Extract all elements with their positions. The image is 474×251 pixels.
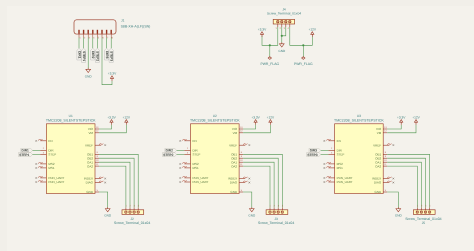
global label DIR3: [309, 148, 321, 152]
U2 motor pin stub row 3: [239, 159, 243, 162]
svg-text:DIR3: DIR3: [105, 51, 109, 58]
svg-text:OA2: OA2: [87, 164, 93, 168]
power flag PWR_FLAG 1: [260, 57, 279, 66]
svg-text:STEP: STEP: [337, 153, 345, 157]
svg-text:GND: GND: [230, 190, 238, 194]
U1 pin DIR stub: [40, 147, 46, 150]
U2 pin VM stub: [239, 130, 243, 133]
J1 pin 2 stub: [83, 34, 85, 38]
U3 motor pin stub row 1: [383, 151, 387, 154]
svg-text:PWR_FLAG: PWR_FLAG: [260, 62, 279, 66]
U3 pin VM stub: [383, 130, 387, 133]
screw terminal J3: [258, 205, 294, 225]
wire to PWR_FLAG 1: [269, 45, 271, 56]
U1 pin GND stub: [95, 189, 99, 192]
power symbol GND (under J4): [278, 42, 286, 53]
svg-text:OA2: OA2: [231, 164, 237, 168]
U2 pin VIO stub: [239, 126, 243, 129]
svg-text:STEP: STEP: [193, 153, 201, 157]
svg-text:J5: J5: [422, 221, 426, 225]
wire U2 motor out 2 to terminal: [243, 158, 278, 207]
U1 pin INDEX (NC): [95, 177, 106, 180]
wire U1 motor out 2 to terminal: [99, 158, 134, 207]
svg-text:VREF: VREF: [229, 143, 237, 147]
svg-text:STEP1: STEP1: [19, 153, 29, 157]
svg-text:VM: VM: [377, 131, 382, 135]
U3 pin STEP stub: [328, 151, 334, 154]
U2 pin PDN_UART (NC): [179, 176, 190, 179]
wire U2.VM to +12V: [243, 125, 270, 133]
global label STEP1: [82, 48, 86, 62]
J1 pin 6 stub: [101, 34, 103, 38]
wire U1 motor out 3 to terminal: [99, 162, 130, 207]
stepper driver U2: [190, 114, 240, 194]
svg-text:Screw_Terminal_01x04: Screw_Terminal_01x04: [267, 12, 301, 16]
svg-text:+12V: +12V: [309, 28, 317, 32]
U1 motor pin stub row 1: [95, 151, 99, 154]
U3 pin VREF (NC): [383, 144, 394, 147]
svg-text:DIAG: DIAG: [86, 181, 94, 185]
U3 pin INDEX (NC): [383, 177, 394, 180]
svg-text:GND: GND: [248, 214, 256, 218]
global label STEP1: [19, 152, 33, 156]
svg-text:DIR2: DIR2: [91, 51, 95, 58]
U2 pin PDN_UART2 (NC): [179, 180, 190, 183]
svg-text:+3.3V: +3.3V: [258, 28, 267, 32]
wire to PWR_FLAG 2: [302, 45, 304, 56]
U3 motor pin stub row 3: [383, 159, 387, 162]
power symbol +12V at U3: [412, 115, 420, 124]
U1 pin PDN_UART (NC): [35, 176, 46, 179]
wire U3 motor out 1 to terminal: [387, 154, 429, 207]
U2 pin DIAG (NC): [239, 181, 250, 184]
wire U3.VIO to +3.3V: [387, 125, 401, 129]
U1 motor pin stub row 2: [95, 155, 99, 158]
svg-text:MS1: MS1: [193, 166, 200, 170]
U3 pin PDN_UART2 (NC): [324, 180, 335, 183]
svg-text:DIAG: DIAG: [230, 181, 238, 185]
J4 pin stubs and numbers: [276, 24, 290, 30]
svg-text:+3.3V: +3.3V: [107, 115, 116, 119]
svg-text:VREF: VREF: [85, 143, 93, 147]
wire U2.GND down: [243, 192, 252, 209]
wire STEP3 to U3.STEP: [321, 154, 329, 156]
U3 pin MS1 (NC): [324, 166, 335, 169]
svg-text:EN: EN: [193, 139, 197, 143]
power symbol +3.3V at U1: [107, 115, 116, 124]
svg-text:OA2: OA2: [375, 164, 381, 168]
power symbol GND (under J1): [85, 68, 93, 79]
svg-text:TMC2208_SILENTSTEPSTICK: TMC2208_SILENTSTEPSTICK: [46, 118, 96, 122]
U2 pin VREF (NC): [239, 144, 250, 147]
U3 motor pin stub row 4: [383, 163, 387, 166]
screw terminal J4 (power input): [267, 7, 301, 24]
svg-text:MS1: MS1: [337, 166, 344, 170]
power symbol +3.3V at U2: [251, 115, 260, 124]
wire U1.VM to +12V: [99, 125, 126, 133]
U3 pin VIO stub: [383, 126, 387, 129]
svg-text:GND: GND: [104, 214, 112, 218]
junction node GND tie: [281, 35, 283, 37]
wire DIR3 to U3.DIR: [321, 149, 329, 151]
wire J1 pin 3 to GND: [87, 38, 89, 70]
U1 pin DIAG (NC): [95, 181, 106, 184]
svg-text:STEP: STEP: [48, 153, 56, 157]
U3 motor pin stub row 2: [383, 155, 387, 158]
wire J1 pin 5 to label STEP2: [96, 38, 98, 49]
svg-text:GND: GND: [375, 190, 383, 194]
U1 pin VREF (NC): [95, 144, 106, 147]
svg-text:+12V: +12V: [123, 115, 131, 119]
U3 pin MS2 (NC): [324, 162, 335, 165]
U1 pin STEP stub: [40, 151, 46, 154]
wire J1 pin 7 to label DIR3: [106, 38, 108, 49]
wire DIR1 to U1.DIR: [33, 149, 41, 151]
stepper driver U1: [46, 114, 96, 194]
wire J4 pin3 joins pin2: [282, 27, 286, 36]
svg-text:EN: EN: [337, 139, 341, 143]
stepper driver U3: [334, 114, 384, 194]
U1 motor pin stub row 3: [95, 159, 99, 162]
svg-text:STEP2: STEP2: [96, 51, 100, 61]
wire J1 pin 1 to label DIR1: [78, 38, 80, 49]
power symbol +12V at U1: [123, 115, 131, 124]
power symbol +12V at U2: [267, 115, 275, 124]
wire J1 pin 2 to label STEP1: [83, 38, 85, 49]
power symbol GND (under U2): [248, 207, 256, 218]
wire U3 motor out 2 to terminal: [387, 158, 425, 207]
wire U1 motor out 1 to terminal: [99, 154, 138, 207]
svg-text:+3.3V: +3.3V: [397, 115, 406, 119]
svg-text:VM: VM: [233, 131, 238, 135]
U3 pin PDN_UART (NC): [324, 176, 335, 179]
svg-text:VREF: VREF: [373, 143, 381, 147]
J1 pin 7 stub: [106, 34, 108, 38]
svg-text:MS1: MS1: [48, 166, 55, 170]
wire J4 pin4 to +12V and PWR_FLAG: [290, 27, 313, 45]
svg-text:PDN_UART: PDN_UART: [337, 180, 353, 184]
U2 motor pin stub row 2: [239, 155, 243, 158]
svg-text:PDN_UART: PDN_UART: [48, 180, 64, 184]
wire U2 motor out 3 to terminal: [243, 162, 274, 207]
J1 pin 4 stub: [92, 34, 94, 38]
power symbol GND (under U1): [104, 207, 112, 218]
svg-text:Screw_Terminal_01x04: Screw_Terminal_01x04: [114, 221, 150, 225]
screw terminal J2: [114, 205, 150, 225]
svg-text:S8B-XH-A(LF)(SN): S8B-XH-A(LF)(SN): [121, 24, 151, 28]
svg-text:STEP3: STEP3: [110, 51, 114, 61]
U1 pin MS2 (NC): [35, 162, 46, 165]
U1 pin VM stub: [95, 130, 99, 133]
power symbol +12V top: [309, 28, 317, 37]
global label STEP3: [307, 152, 321, 156]
wire U3 motor out 4 to terminal: [387, 166, 417, 208]
wire U1.VIO to +3.3V: [99, 125, 112, 129]
svg-text:EN: EN: [48, 139, 52, 143]
svg-text:PDN_UART: PDN_UART: [193, 180, 209, 184]
global label DIR1: [77, 48, 81, 60]
wire STEP2 to U2.STEP: [177, 154, 185, 156]
svg-text:STEP3: STEP3: [307, 153, 317, 157]
wire U2.VIO to +3.3V: [243, 125, 256, 129]
power symbol +3.3V top: [258, 28, 267, 37]
U2 motor pin stub row 4: [239, 163, 243, 166]
U2 pin DIR stub: [184, 147, 190, 150]
wire STEP1 to U1.STEP: [33, 154, 41, 156]
U2 pin INDEX (NC): [239, 177, 250, 180]
wire U2 motor out 4 to terminal: [243, 166, 270, 208]
svg-text:DIR1: DIR1: [77, 51, 81, 58]
U1 motor pin stub row 4: [95, 163, 99, 166]
connector J1: [74, 19, 150, 34]
wire U3 motor out 3 to terminal: [387, 162, 421, 207]
U2 pin EN (NC): [179, 139, 190, 142]
junction node right power: [302, 44, 304, 46]
svg-text:+3.3V: +3.3V: [251, 115, 260, 119]
J1 pin 5 stub: [96, 34, 98, 38]
global label DIR2: [91, 48, 95, 60]
wire DIR2 to U2.DIR: [177, 149, 185, 151]
svg-text:Screw_Terminal_01x04: Screw_Terminal_01x04: [258, 221, 294, 225]
svg-text:STEP1: STEP1: [82, 51, 86, 61]
svg-text:TMC2208_SILENTSTEPSTICK: TMC2208_SILENTSTEPSTICK: [190, 118, 240, 122]
U2 pin STEP stub: [184, 151, 190, 154]
J1 pin 8 stub: [110, 34, 112, 38]
junction node left power: [269, 44, 271, 46]
J1 pin 3 stub: [87, 34, 89, 38]
svg-text:PWR_FLAG: PWR_FLAG: [294, 62, 313, 66]
svg-text:GND: GND: [395, 214, 403, 218]
J1 pin 1 stub: [78, 34, 80, 38]
wire J4 pin1 to +3.3V and PWR_FLAG: [262, 27, 278, 45]
U2 pin MS1 (NC): [179, 166, 190, 169]
svg-text:VM: VM: [89, 131, 94, 135]
U2 pin MS2 (NC): [179, 162, 190, 165]
global label STEP2: [163, 152, 177, 156]
U1 pin VIO stub: [95, 126, 99, 129]
power flag PWR_FLAG 2: [294, 57, 313, 66]
U3 pin GND stub: [383, 189, 387, 192]
wire J1 pin 8 to label STEP3: [110, 38, 112, 49]
svg-text:DIAG: DIAG: [374, 181, 382, 185]
power symbol +3.3V near J1: [108, 72, 117, 81]
U1 pin EN (NC): [35, 139, 46, 142]
power symbol GND (under U3): [395, 207, 403, 218]
svg-text:GND: GND: [278, 49, 286, 53]
svg-text:+12V: +12V: [267, 115, 275, 119]
wire U3.GND down: [387, 192, 398, 209]
global label DIR3: [105, 48, 109, 60]
svg-text:+3.3V: +3.3V: [108, 72, 117, 76]
J1 pin numbers: [79, 36, 113, 39]
power symbol +3.3V at U3: [397, 115, 406, 124]
svg-text:TMC2208_SILENTSTEPSTICK: TMC2208_SILENTSTEPSTICK: [334, 118, 384, 122]
svg-text:J1: J1: [121, 19, 125, 23]
U3 pin DIAG (NC): [383, 181, 394, 184]
global label STEP2: [95, 48, 99, 62]
wire J1 pin 4 to label DIR2: [92, 38, 94, 49]
screw terminal J5: [405, 205, 441, 225]
global label DIR2: [165, 148, 177, 152]
U2 motor pin stub row 1: [239, 151, 243, 154]
U3 pin DIR stub: [328, 147, 334, 150]
wire U3.VM to +12V: [387, 125, 416, 133]
svg-text:+12V: +12V: [412, 115, 420, 119]
global label DIR1: [21, 148, 33, 152]
wire U1.GND down: [99, 192, 108, 209]
U2 pin GND stub: [239, 189, 243, 192]
U1 pin PDN_UART2 (NC): [35, 180, 46, 183]
global label STEP3: [109, 48, 113, 62]
wire J1 pin 6 to +3.3V: [102, 38, 112, 85]
wire J4 pin2 to GND: [281, 27, 283, 44]
U1 pin MS1 (NC): [35, 166, 46, 169]
wire U1 motor out 4 to terminal: [99, 166, 126, 208]
svg-text:GND: GND: [85, 74, 93, 78]
wire U2 motor out 1 to terminal: [243, 154, 282, 207]
svg-text:GND: GND: [86, 190, 94, 194]
svg-text:STEP2: STEP2: [163, 153, 173, 157]
U3 pin EN (NC): [324, 139, 335, 142]
